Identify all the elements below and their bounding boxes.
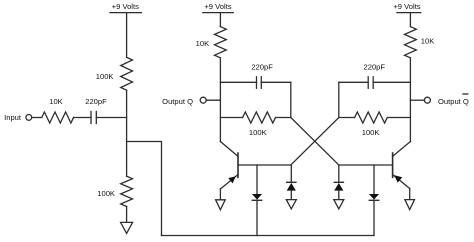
wire: C2 branch from middle rail	[220, 81, 256, 83]
wire: C3 left lead	[339, 81, 368, 83]
diode D1 (left steering, anode up)	[252, 165, 262, 236]
svg-text:10K: 10K	[196, 39, 210, 48]
svg-text:220pF: 220pF	[251, 63, 273, 72]
wire: right rail to output Q-bar terminal	[410, 99, 424, 101]
svg-text:100K: 100K	[362, 128, 380, 137]
svg-text:+9 Volts: +9 Volts	[204, 2, 231, 11]
wire: cross-coupling diagonal from right RC to Q1 base	[291, 118, 339, 166]
ground (right clamp diode)	[334, 200, 344, 209]
ground (Q1 emitter)	[216, 200, 226, 210]
wire: R3 to C1	[74, 117, 92, 119]
diode D3 (right clamp, cathode up)	[334, 165, 343, 200]
resistor R7 100K (right cross-coupling)	[355, 112, 388, 137]
transistor Q1 (left)	[220, 142, 238, 190]
wire: R2 bottom to ground	[126, 207, 128, 223]
wire: R1 bottom down left rail to R2 top (passing input node and trigger branch)	[126, 90, 128, 176]
svg-text:220pF: 220pF	[85, 97, 107, 106]
wire: C2 right lead	[261, 81, 291, 83]
wire: Q1 emitter down	[219, 189, 221, 200]
svg-text:+9 Volts: +9 Volts	[112, 2, 139, 11]
svg-text:220pF: 220pF	[364, 63, 386, 72]
svg-text:10K: 10K	[421, 37, 435, 46]
wire: Q2 base line	[339, 164, 393, 166]
output Q-bar terminal	[424, 94, 469, 106]
wire: right side of left RC loop	[290, 82, 292, 117]
resistor R2 100K (lower bias, vertical)	[97, 176, 132, 206]
resistor R6 10K (Q2 collector load)	[405, 27, 435, 58]
transistor Q2 (right)	[393, 142, 411, 189]
wire: middle rail R4 bottom to Q1 collector bend	[219, 58, 221, 142]
resistor R4 10K (Q1 collector load)	[196, 27, 227, 58]
wire: cross-coupling diagonal from left RC to Q2 base	[291, 118, 339, 166]
wire: C1 to left rail node	[96, 117, 126, 119]
wire: trigger branch from left rail to bottom bus	[127, 142, 162, 236]
resistor R5 100K (left cross-coupling)	[243, 112, 276, 137]
wire: left side of right RC loop	[338, 82, 340, 117]
svg-text:100K: 100K	[249, 128, 267, 137]
svg-text:100K: 100K	[96, 72, 114, 81]
svg-text:100K: 100K	[97, 189, 115, 198]
wire: input terminal to R3	[32, 117, 42, 119]
wire: C3 right lead to right rail	[373, 81, 410, 83]
capacitor C1 220pF (input coupling)	[85, 97, 107, 124]
wire: right +9V to R6 top	[409, 13, 411, 27]
output Q terminal	[162, 97, 206, 106]
wire: bottom trigger bus	[162, 235, 375, 237]
wire: R7 right lead to right rail	[387, 117, 410, 119]
svg-text:Output Q: Output Q	[162, 97, 193, 106]
wire: right rail R6 bottom to Q2 collector bend	[409, 58, 411, 142]
wire: Q1 base line	[238, 164, 291, 166]
svg-text:10K: 10K	[49, 97, 63, 106]
input terminal	[4, 113, 32, 122]
resistor R3 10K (input series)	[42, 97, 74, 123]
ground (left bias divider)	[121, 222, 133, 233]
wire: R5 branch from middle rail	[220, 117, 242, 119]
diode D2 (left clamp, cathode up)	[287, 165, 296, 200]
wire: left +9V rail to R1 top	[126, 13, 128, 58]
ground (left clamp diode)	[286, 200, 296, 209]
+9V supply symbol (middle)	[203, 2, 233, 12]
wire: middle +9V to R4 top	[219, 13, 221, 27]
capacitor C2 220pF (left cross-coupling)	[251, 63, 273, 89]
diode D4 (right steering, anode up)	[369, 165, 379, 236]
svg-text:Input: Input	[4, 113, 22, 122]
ground (Q2 emitter)	[405, 200, 415, 210]
+9V supply symbol (left)	[110, 2, 141, 12]
svg-text:+9 Volts: +9 Volts	[393, 2, 420, 11]
wire: Q2 emitter down	[409, 189, 411, 200]
wire: output Q terminal to middle rail	[206, 99, 220, 101]
resistor R1 100K (upper bias, vertical)	[96, 57, 133, 90]
svg-text:Output Q: Output Q	[438, 97, 469, 106]
+9V supply symbol (right)	[393, 2, 420, 12]
wire: R5 right lead	[276, 117, 291, 119]
wire: R7 left lead	[339, 117, 355, 119]
capacitor C3 220pF (right cross-coupling)	[364, 63, 386, 89]
